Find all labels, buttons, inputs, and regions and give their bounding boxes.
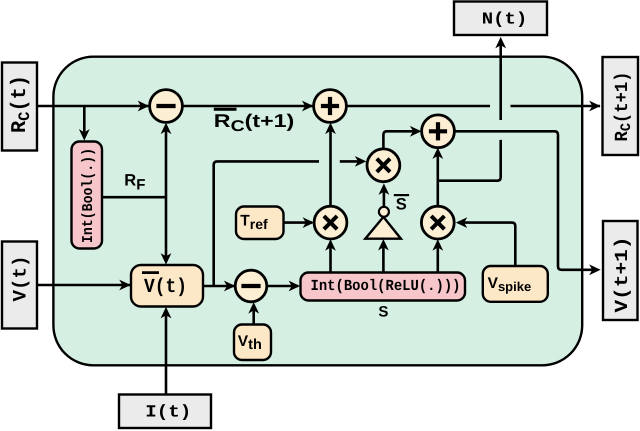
svg-text:S: S: [378, 303, 388, 320]
input port I(t): [119, 395, 211, 429]
wire S1 to adder A1: [182, 101, 313, 112]
subtractor S2: [235, 270, 267, 302]
svg-text:Tref: Tref: [240, 213, 268, 232]
wire bubble to M1: [379, 183, 390, 206]
svg-text:Int(Bool(.)): Int(Bool(.)): [80, 148, 97, 243]
wire U1 output to node RF: [101, 196, 166, 199]
wire V(t) to Vbar block: [37, 280, 131, 291]
input port V(t): [2, 242, 37, 329]
multiplier M3: [421, 206, 454, 239]
wire V_th up to S2: [248, 302, 259, 324]
svg-text:V(t): V(t): [10, 256, 32, 302]
wire V_spike to M3: [456, 217, 516, 266]
wire M3 up to adder A2 and node NB: [432, 148, 443, 207]
svg-text:I(t): I(t): [145, 404, 191, 423]
adder A2: [422, 115, 455, 148]
wire Vbar branch up to multiplier M1 with crossover gap: [214, 156, 367, 286]
wire node RF up to S1 and down to Vbar block: [161, 123, 172, 265]
wire S2 to U2: [267, 281, 300, 292]
svg-text:V(t): V(t): [144, 276, 187, 299]
adder A1: [314, 90, 347, 123]
svg-text:Int(Bool(ReLU(.))): Int(Bool(ReLU(.))): [311, 277, 461, 295]
output port N(t): [454, 2, 547, 36]
label S: [378, 303, 388, 320]
wire M2 up to adder A1: [325, 123, 336, 207]
wire N(t) riser from node NB: [438, 37, 506, 181]
multiplier M2: [314, 206, 347, 239]
block U1 Int(Bool(.)): [72, 142, 103, 249]
svg-text:RC(t+1): RC(t+1): [214, 110, 295, 135]
svg-text:RC(t): RC(t): [9, 75, 34, 133]
wire A2 to V(t+1): [454, 131, 600, 275]
buffer B1 with inversion bubble: [365, 207, 401, 239]
output port R_C(t+1): [603, 57, 639, 155]
wire U2 to multiplier M2: [325, 239, 336, 272]
block U2 Int(Bool(ReLU(.))): [301, 273, 466, 301]
block V_th: [234, 325, 271, 361]
block T_ref: [236, 207, 284, 240]
wire branch down to Int(Bool(.)) U1: [79, 106, 90, 141]
wire Vbar to subtractor S2: [203, 281, 236, 292]
input port R_C(t): [2, 63, 37, 151]
wire A1 to R_C(t+1) with crossover gap: [346, 101, 600, 112]
label Sbar: [394, 195, 409, 213]
multiplier M1: [367, 149, 400, 182]
subtractor S1: [150, 90, 183, 123]
block V_spike: [483, 266, 548, 302]
output port V(t+1): [603, 221, 638, 320]
wire R_C(t) to subtractor S1: [37, 101, 150, 112]
wire M1 to adder A2: [383, 126, 421, 149]
svg-text:N(t): N(t): [482, 11, 528, 30]
svg-text:V(t+1): V(t+1): [612, 237, 633, 313]
wire T_ref to M2: [283, 217, 314, 228]
block Vbar average: [131, 265, 203, 307]
wire U2 to buffer B1: [378, 239, 389, 273]
label Rbar_C(t+1): [214, 109, 295, 134]
wire U2 to multiplier M3: [432, 239, 443, 272]
label RF: [124, 172, 145, 194]
wire I(t) up to Vbar block: [161, 307, 172, 395]
neuron block container: [53, 57, 582, 366]
svg-text:S: S: [396, 195, 407, 213]
